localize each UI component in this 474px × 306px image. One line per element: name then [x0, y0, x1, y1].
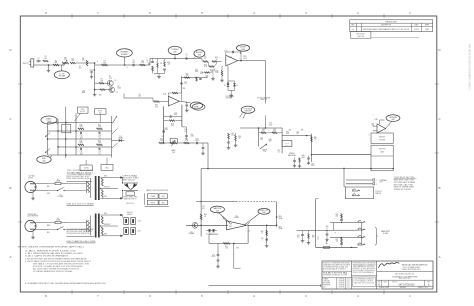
- filter capacitor C63: [131, 228, 136, 235]
- output level note underline: [394, 178, 417, 180]
- chorus clock box: [282, 141, 292, 147]
- ladder labels: [164, 127, 168, 131]
- feedback branch wire: [233, 243, 241, 269]
- wire from boxes to grid: [75, 113, 101, 122]
- resistor R7: [102, 61, 108, 66]
- resistor R3: [70, 58, 75, 63]
- reverb driver box: [371, 133, 393, 143]
- LED assy box: [126, 192, 134, 195]
- tone stack output vertical: [111, 116, 113, 158]
- resistor R8: [140, 60, 146, 65]
- balloon line out: [244, 208, 270, 225]
- svg-text:.0022: .0022: [200, 73, 204, 75]
- svg-text:OUT: OUT: [248, 231, 251, 233]
- export switch labels extra: [47, 225, 50, 234]
- svg-text:047-14730-000 REV A SCHEMATI: 047-14730-000 REV A SCHEMATIC SHEET 1: [468, 44, 471, 92]
- resistor R10 shunt: [163, 59, 170, 74]
- cap C53 to ground: [297, 230, 304, 242]
- upper RC stack C54: [340, 219, 343, 224]
- filter capacitor C62: [124, 228, 129, 235]
- balloon master volume: [210, 206, 230, 223]
- svg-text:10K: 10K: [98, 126, 101, 128]
- branch RC pair: [195, 70, 204, 82]
- note text below tone stack: [67, 170, 94, 174]
- drive network labels: [204, 56, 224, 73]
- svg-text:.1: .1: [146, 62, 147, 64]
- transistor Q2: [105, 87, 118, 93]
- svg-text:ON/OFF: ON/OFF: [244, 111, 252, 113]
- power amp block triangle: [222, 216, 250, 230]
- fuse F2 speaker line: [324, 242, 353, 249]
- svg-text:SEND: SEND: [194, 106, 200, 108]
- svg-text:FOOT: FOOT: [98, 110, 102, 112]
- svg-text:RED GRN YEL: RED GRN YEL: [124, 197, 138, 199]
- chorus depth pot: [260, 144, 267, 153]
- ladder resistor R19: [164, 120, 182, 127]
- svg-text:4-94: 4-94: [347, 281, 350, 283]
- notes numbered list: [25, 250, 92, 263]
- resistor R2 series: [53, 60, 59, 65]
- volume pot VR1: [62, 60, 69, 66]
- svg-text:D2: D2: [236, 85, 238, 87]
- svg-text:OUT: OUT: [380, 182, 383, 184]
- reverb box vertical taps: [370, 168, 394, 170]
- upper stub wire preamp out: [346, 179, 377, 182]
- svg-text:S2: S2: [65, 127, 67, 129]
- tone grid pot arrows: [45, 133, 50, 153]
- wire rise to tone stage: [150, 59, 169, 66]
- ground bus horizontal: [209, 285, 321, 287]
- svg-text:.1: .1: [262, 240, 263, 242]
- op-amp U2A feedback cap: [226, 51, 241, 61]
- svg-text:6.8K: 6.8K: [79, 142, 82, 144]
- resistor R56: [335, 232, 337, 234]
- resistor R21: [78, 140, 84, 145]
- long vertical from U2A to chorus: [265, 61, 267, 104]
- svg-text:LM3886: LM3886: [234, 217, 239, 219]
- supply rail labels: [236, 248, 239, 250]
- label filter caps: [127, 212, 133, 216]
- svg-text:Q1: Q1: [114, 80, 116, 82]
- svg-text:10K: 10K: [314, 139, 317, 141]
- filter cap wires: [123, 215, 142, 236]
- svg-text:BOARD: BOARD: [121, 53, 128, 56]
- wire chorus row drop: [207, 143, 209, 169]
- ground bus riser: [217, 267, 219, 269]
- main speaker jack J9: [358, 221, 366, 223]
- svg-text:REMOVE JUMPER WHEN: REMOVE JUMPER WHEN: [394, 187, 414, 189]
- main wire node labels: [97, 60, 148, 69]
- svg-text:SHEET 1 OF 2: SHEET 1 OF 2: [418, 287, 428, 289]
- ladder rail label: [161, 136, 164, 138]
- capacitor C3 shunt: [148, 59, 163, 74]
- balloon effects send: [190, 102, 202, 109]
- svg-text:220K: 220K: [195, 71, 198, 73]
- svg-text:DWG NO.: DWG NO.: [392, 281, 398, 283]
- chorus bbd parts: [293, 158, 301, 168]
- svg-text:.022: .022: [138, 95, 141, 97]
- svg-text:47K: 47K: [273, 130, 276, 132]
- svg-text:PWR: PWR: [229, 224, 232, 226]
- table 1 cell B2: [159, 200, 167, 205]
- U1A feedback: [168, 92, 181, 101]
- power amp pin labels: [223, 216, 251, 233]
- balloon mid pot: [37, 156, 52, 164]
- speaker dashed line: [196, 201, 277, 210]
- capacitor C54b: [325, 230, 328, 241]
- tone grid vertical wire 2: [57, 119, 59, 156]
- chassis ground plug 1: [31, 192, 35, 200]
- balloon effects return overlap: [192, 104, 205, 111]
- transformer T1 core: [87, 176, 100, 200]
- svg-text:P/N 041-0037-000 SEE NOTE 4: P/N 041-0037-000 SEE NOTE 4: [67, 233, 91, 235]
- svg-text:BRN/WHT: BRN/WHT: [104, 224, 111, 226]
- resistor R14 to ground: [215, 66, 223, 82]
- upper RC stack R55: [336, 213, 343, 219]
- capacitor C1: [36, 58, 41, 63]
- svg-text:4-94: 4-94: [347, 287, 350, 289]
- svg-text:TO FOOTSWITCH: TO FOOTSWITCH: [257, 97, 271, 99]
- svg-text:47K: 47K: [155, 106, 158, 108]
- chorus box labels: [288, 129, 303, 132]
- reverb opamp labels: [369, 115, 391, 137]
- plug wires: [36, 184, 49, 191]
- label preamp out power in: [380, 179, 387, 184]
- svg-text:.01: .01: [278, 152, 280, 154]
- capacitor C21 shunt: [201, 143, 205, 155]
- svg-text:OUTPUT NOTE:: OUTPUT NOTE:: [394, 177, 416, 179]
- resistor R5: [95, 79, 105, 84]
- resistor R53 node: [326, 226, 329, 231]
- svg-text:REVERB: REVERB: [379, 136, 386, 138]
- svg-text:WHT: WHT: [47, 193, 50, 195]
- filter capacitor C61: [131, 218, 136, 225]
- svg-text:MUSICAL INSTRUMENTS: MUSICAL INSTRUMENTS: [402, 263, 428, 266]
- resistor R25: [159, 138, 165, 143]
- svg-text:22K: 22K: [225, 247, 228, 249]
- svg-text:P/N 047-505: P/N 047-505: [126, 203, 134, 205]
- svg-text:.001: .001: [79, 67, 82, 69]
- label C9 node: [138, 94, 141, 98]
- chorus rate pot: [170, 140, 177, 154]
- wire power amp input row: [186, 225, 228, 227]
- svg-text:A: A: [438, 255, 440, 259]
- svg-text:50 HZ EXPORT: 50 HZ EXPORT: [28, 216, 39, 218]
- ground tone shunt: [154, 74, 165, 79]
- svg-text:4.7K: 4.7K: [185, 140, 188, 142]
- svg-text:U4B: U4B: [300, 130, 303, 132]
- capacitor C2: [132, 60, 135, 66]
- svg-text:TBL 1: TBL 1: [105, 167, 109, 169]
- svg-text:BLK: BLK: [47, 186, 50, 188]
- zobel ground: [265, 241, 269, 248]
- svg-text:RED: RED: [162, 202, 165, 204]
- svg-text:R2: R2: [55, 60, 57, 62]
- chorus ladder left rail: [258, 127, 260, 146]
- label +15V rail: [82, 90, 86, 94]
- tone grid vertical wire 3: [65, 107, 67, 159]
- LED bus lower: [124, 190, 139, 192]
- svg-text:10K: 10K: [171, 125, 174, 127]
- svg-text:BOOST LED: BOOST LED: [123, 177, 141, 179]
- svg-text:+42V: +42V: [138, 221, 142, 223]
- secondary labels: [104, 175, 110, 198]
- svg-text:DRIVER: DRIVER: [379, 140, 386, 142]
- svg-text:BLU: BLU: [47, 232, 50, 234]
- svg-text:CONN: CONN: [84, 168, 88, 170]
- svg-text:1N4448: 1N4448: [118, 137, 123, 139]
- svg-text:100: 100: [336, 215, 339, 217]
- secondary labels export: [104, 213, 111, 236]
- table 1 bottom line: [145, 206, 169, 208]
- svg-text:22K: 22K: [186, 75, 189, 77]
- svg-text:DRIVE: DRIVE: [151, 202, 155, 204]
- ladder capacitor C14: [162, 131, 165, 132]
- svg-text:P/N 041-0036-000: P/N 041-0036-000: [67, 178, 90, 180]
- svg-text:10/16: 10/16: [311, 165, 315, 167]
- diode D3 switch: [112, 136, 125, 142]
- svg-text:USE 26.3 VOLT CT XFMR: USE 26.3 VOLT CT XFMR: [67, 204, 95, 206]
- clean channel rail: [181, 76, 183, 93]
- zone numbers bottom edge: [45, 290, 411, 298]
- AC plug P2: [25, 220, 36, 231]
- tone grid vertical wire 1: [47, 123, 49, 156]
- svg-text:SW: SW: [198, 54, 201, 56]
- LED bicolor diode A: [124, 183, 130, 189]
- svg-text:BRN: BRN: [47, 225, 50, 227]
- svg-text:B: B: [127, 67, 128, 69]
- svg-text:2.7: 2.7: [312, 237, 314, 239]
- fuse F1: [48, 179, 68, 185]
- svg-text:RED: RED: [104, 196, 107, 198]
- pot wiper arrow mid: [113, 116, 117, 122]
- input jack J1: [29, 59, 34, 67]
- svg-text:S2B: S2B: [183, 88, 186, 90]
- zobel capacitor C50: [261, 238, 268, 242]
- output level note text: [394, 177, 416, 191]
- capacitor C20: [195, 138, 199, 144]
- wire jack row two: [334, 229, 358, 231]
- svg-text:.01: .01: [98, 153, 100, 155]
- svg-text:VOL: VOL: [64, 59, 67, 61]
- svg-text:4558: 4558: [301, 157, 304, 159]
- microfilm edge strip text: [468, 44, 471, 92]
- svg-text:PRI 120V 60HZ SEC 36VCT: PRI 120V 60HZ SEC 36VCT: [67, 176, 91, 178]
- svg-text:4700/50: 4700/50: [127, 214, 133, 216]
- label 240V export: [28, 213, 39, 218]
- svg-text:DRW: DRW: [425, 29, 429, 31]
- svg-text:MODEL PR 497: MODEL PR 497: [399, 278, 410, 280]
- table 1 cell A1: [147, 194, 158, 199]
- table 1 left rail: [144, 193, 146, 205]
- svg-text:4-94: 4-94: [347, 279, 350, 281]
- table 1 cell B1: [159, 194, 167, 199]
- title block tolerance and signature column: [322, 262, 352, 289]
- svg-text:47/25: 47/25: [164, 129, 168, 131]
- svg-text:R7: R7: [103, 61, 105, 63]
- interlock box: [80, 160, 92, 171]
- primary switch labels extra: [47, 186, 50, 195]
- transformer T1 primary winding: [68, 182, 90, 193]
- svg-text:10/16: 10/16: [191, 135, 195, 137]
- reverb feedback: [380, 120, 385, 124]
- svg-text:D1: D1: [224, 85, 226, 87]
- wire chorus input row: [164, 142, 208, 144]
- svg-text:SEE NOTE 5: SEE NOTE 5: [124, 199, 137, 201]
- svg-text:4558: 4558: [268, 141, 271, 143]
- transformer tap dots: [100, 188, 101, 227]
- svg-text:4.7K: 4.7K: [204, 66, 207, 68]
- U1A gain ladder left rail: [163, 106, 165, 143]
- plug wires export: [36, 223, 49, 230]
- zone letters left edge: [9, 48, 22, 259]
- bias parts stack: [227, 133, 241, 149]
- chorus label C35: [277, 150, 280, 154]
- LED assy caption: [123, 174, 141, 181]
- svg-text:R9: R9: [148, 64, 150, 66]
- AC plug P1: [25, 181, 36, 192]
- svg-text:.022: .022: [167, 64, 170, 66]
- op-amp U1A recovery: [160, 93, 180, 107]
- svg-text:+15V: +15V: [161, 136, 164, 138]
- ground at input jack: [47, 65, 51, 72]
- transformer T2 primary winding: [68, 221, 90, 232]
- footswitch note text: [257, 97, 271, 101]
- capacitor C5: [186, 54, 188, 60]
- chorus mid wire 2: [307, 135, 312, 137]
- svg-text:22K: 22K: [231, 135, 234, 137]
- svg-text:6.8K: 6.8K: [79, 126, 82, 128]
- jack column bus: [361, 223, 362, 246]
- title block company and drawing number column: [377, 262, 433, 289]
- svg-text:GRN: GRN: [162, 196, 165, 198]
- svg-text:4.7K: 4.7K: [109, 78, 112, 80]
- svg-text:100: 100: [297, 236, 300, 238]
- thermal text: [317, 237, 320, 241]
- svg-text:CLOCK: CLOCK: [285, 144, 289, 146]
- notes sub list: [33, 263, 89, 273]
- wire lower jack feed: [316, 246, 358, 248]
- output node vertical: [276, 202, 278, 227]
- resistor R15: [153, 98, 160, 108]
- wire tone recovery run: [124, 94, 153, 99]
- resistor R22: [97, 124, 103, 129]
- lower jack mid feed: [330, 237, 358, 239]
- svg-text:.022: .022: [204, 58, 207, 60]
- upper jack enclosure: [345, 187, 373, 199]
- output tap upper: [276, 216, 283, 220]
- supply cap C52: [297, 229, 334, 231]
- chorus caps C38: [307, 154, 312, 165]
- svg-text:RED: RED: [104, 175, 107, 177]
- power amp input vertical: [200, 169, 202, 237]
- zone numbers top edge: [45, 11, 411, 18]
- svg-text:RED/YEL: RED/YEL: [104, 186, 110, 188]
- chorus bbd text cluster: [288, 153, 305, 159]
- chorus ladder right rail: [281, 128, 283, 153]
- capacitor C17: [98, 148, 101, 156]
- zone letters right edge: [435, 48, 442, 259]
- svg-text:10K: 10K: [160, 140, 163, 142]
- svg-text:R24: R24: [184, 129, 187, 131]
- label A2 node: [109, 76, 121, 89]
- balloon bass pot: [41, 116, 58, 125]
- svg-text:J5: J5: [317, 239, 319, 241]
- wire to bias network: [63, 57, 95, 69]
- chorus label C39: [311, 163, 315, 167]
- table 1 heading: [146, 189, 168, 192]
- svg-text:J9: J9: [335, 232, 337, 234]
- label S2B: [183, 88, 186, 90]
- chorus resistor R38: [311, 136, 317, 141]
- balloon J1 tip: [54, 65, 69, 79]
- chorus mid wire: [282, 135, 307, 137]
- svg-text:10K: 10K: [100, 80, 103, 82]
- footswitch jack J8: [352, 194, 360, 196]
- switch select arrows: [112, 129, 118, 149]
- chassis ground plug 2: [31, 231, 35, 239]
- balloon drive: [236, 45, 249, 54]
- main bus wire to power amp: [201, 168, 393, 170]
- U2A pin labels: [228, 56, 247, 70]
- lower RC stack C58: [340, 243, 343, 248]
- node junction at input: [48, 64, 50, 66]
- revision table: [350, 20, 433, 32]
- clean channel branch wire: [182, 77, 207, 79]
- svg-text:.022: .022: [80, 153, 83, 155]
- chorus right rail: [311, 134, 313, 162]
- balloon chorus: [240, 106, 255, 118]
- driver transistor Q5: [189, 222, 198, 235]
- chorus ladder labels: [260, 138, 272, 143]
- secondary arrowheads: [121, 177, 123, 237]
- svg-text:CHECKED: CHECKED: [323, 281, 330, 283]
- svg-text:INPUT: INPUT: [23, 63, 30, 65]
- balloon treble: [168, 46, 182, 59]
- svg-text:4-8-94: 4-8-94: [414, 29, 419, 31]
- label footswitch jacks: [375, 191, 382, 195]
- title block proprietary note column: [352, 261, 377, 286]
- svg-text:Q2: Q2: [116, 91, 118, 93]
- T1 secondary wires: [101, 178, 123, 199]
- power amp output wire: [248, 225, 277, 226]
- svg-text:10/16: 10/16: [195, 140, 199, 142]
- resistor R50 on input vertical: [200, 214, 207, 220]
- primary notes text: [67, 173, 93, 180]
- wire chorus to reverb: [312, 154, 372, 156]
- svg-text:1/50: 1/50: [260, 139, 263, 141]
- svg-text:INTERPRET GEOMETRIC TOL PER: INTERPRET GEOMETRIC TOL PER: [323, 274, 347, 276]
- svg-text:4.7K: 4.7K: [286, 133, 289, 135]
- tone grid junction dots: [47, 122, 77, 156]
- svg-text:WITHOUT WRITTEN PERMISSION: WITHOUT WRITTEN PERMISSION: [353, 272, 374, 274]
- block2 bottom caption: [67, 240, 96, 243]
- svg-text:DESCRIPTION: DESCRIPTION: [381, 25, 391, 27]
- wire U2A output: [238, 60, 266, 62]
- svg-text:BRN: BRN: [104, 213, 107, 215]
- lower RC stack R57: [336, 237, 343, 243]
- svg-text:1K: 1K: [216, 59, 218, 61]
- ext speaker jack J11: [358, 236, 366, 238]
- capacitor C16: [98, 132, 101, 140]
- footswitch jack J7: [352, 189, 360, 191]
- svg-text:+: +: [139, 183, 140, 185]
- svg-text:.047: .047: [132, 62, 135, 64]
- fuse F1A export: [48, 218, 68, 224]
- main speaker jack J10: [358, 228, 366, 230]
- wire main signal run: [95, 64, 150, 66]
- upper stub wire power in: [346, 183, 377, 186]
